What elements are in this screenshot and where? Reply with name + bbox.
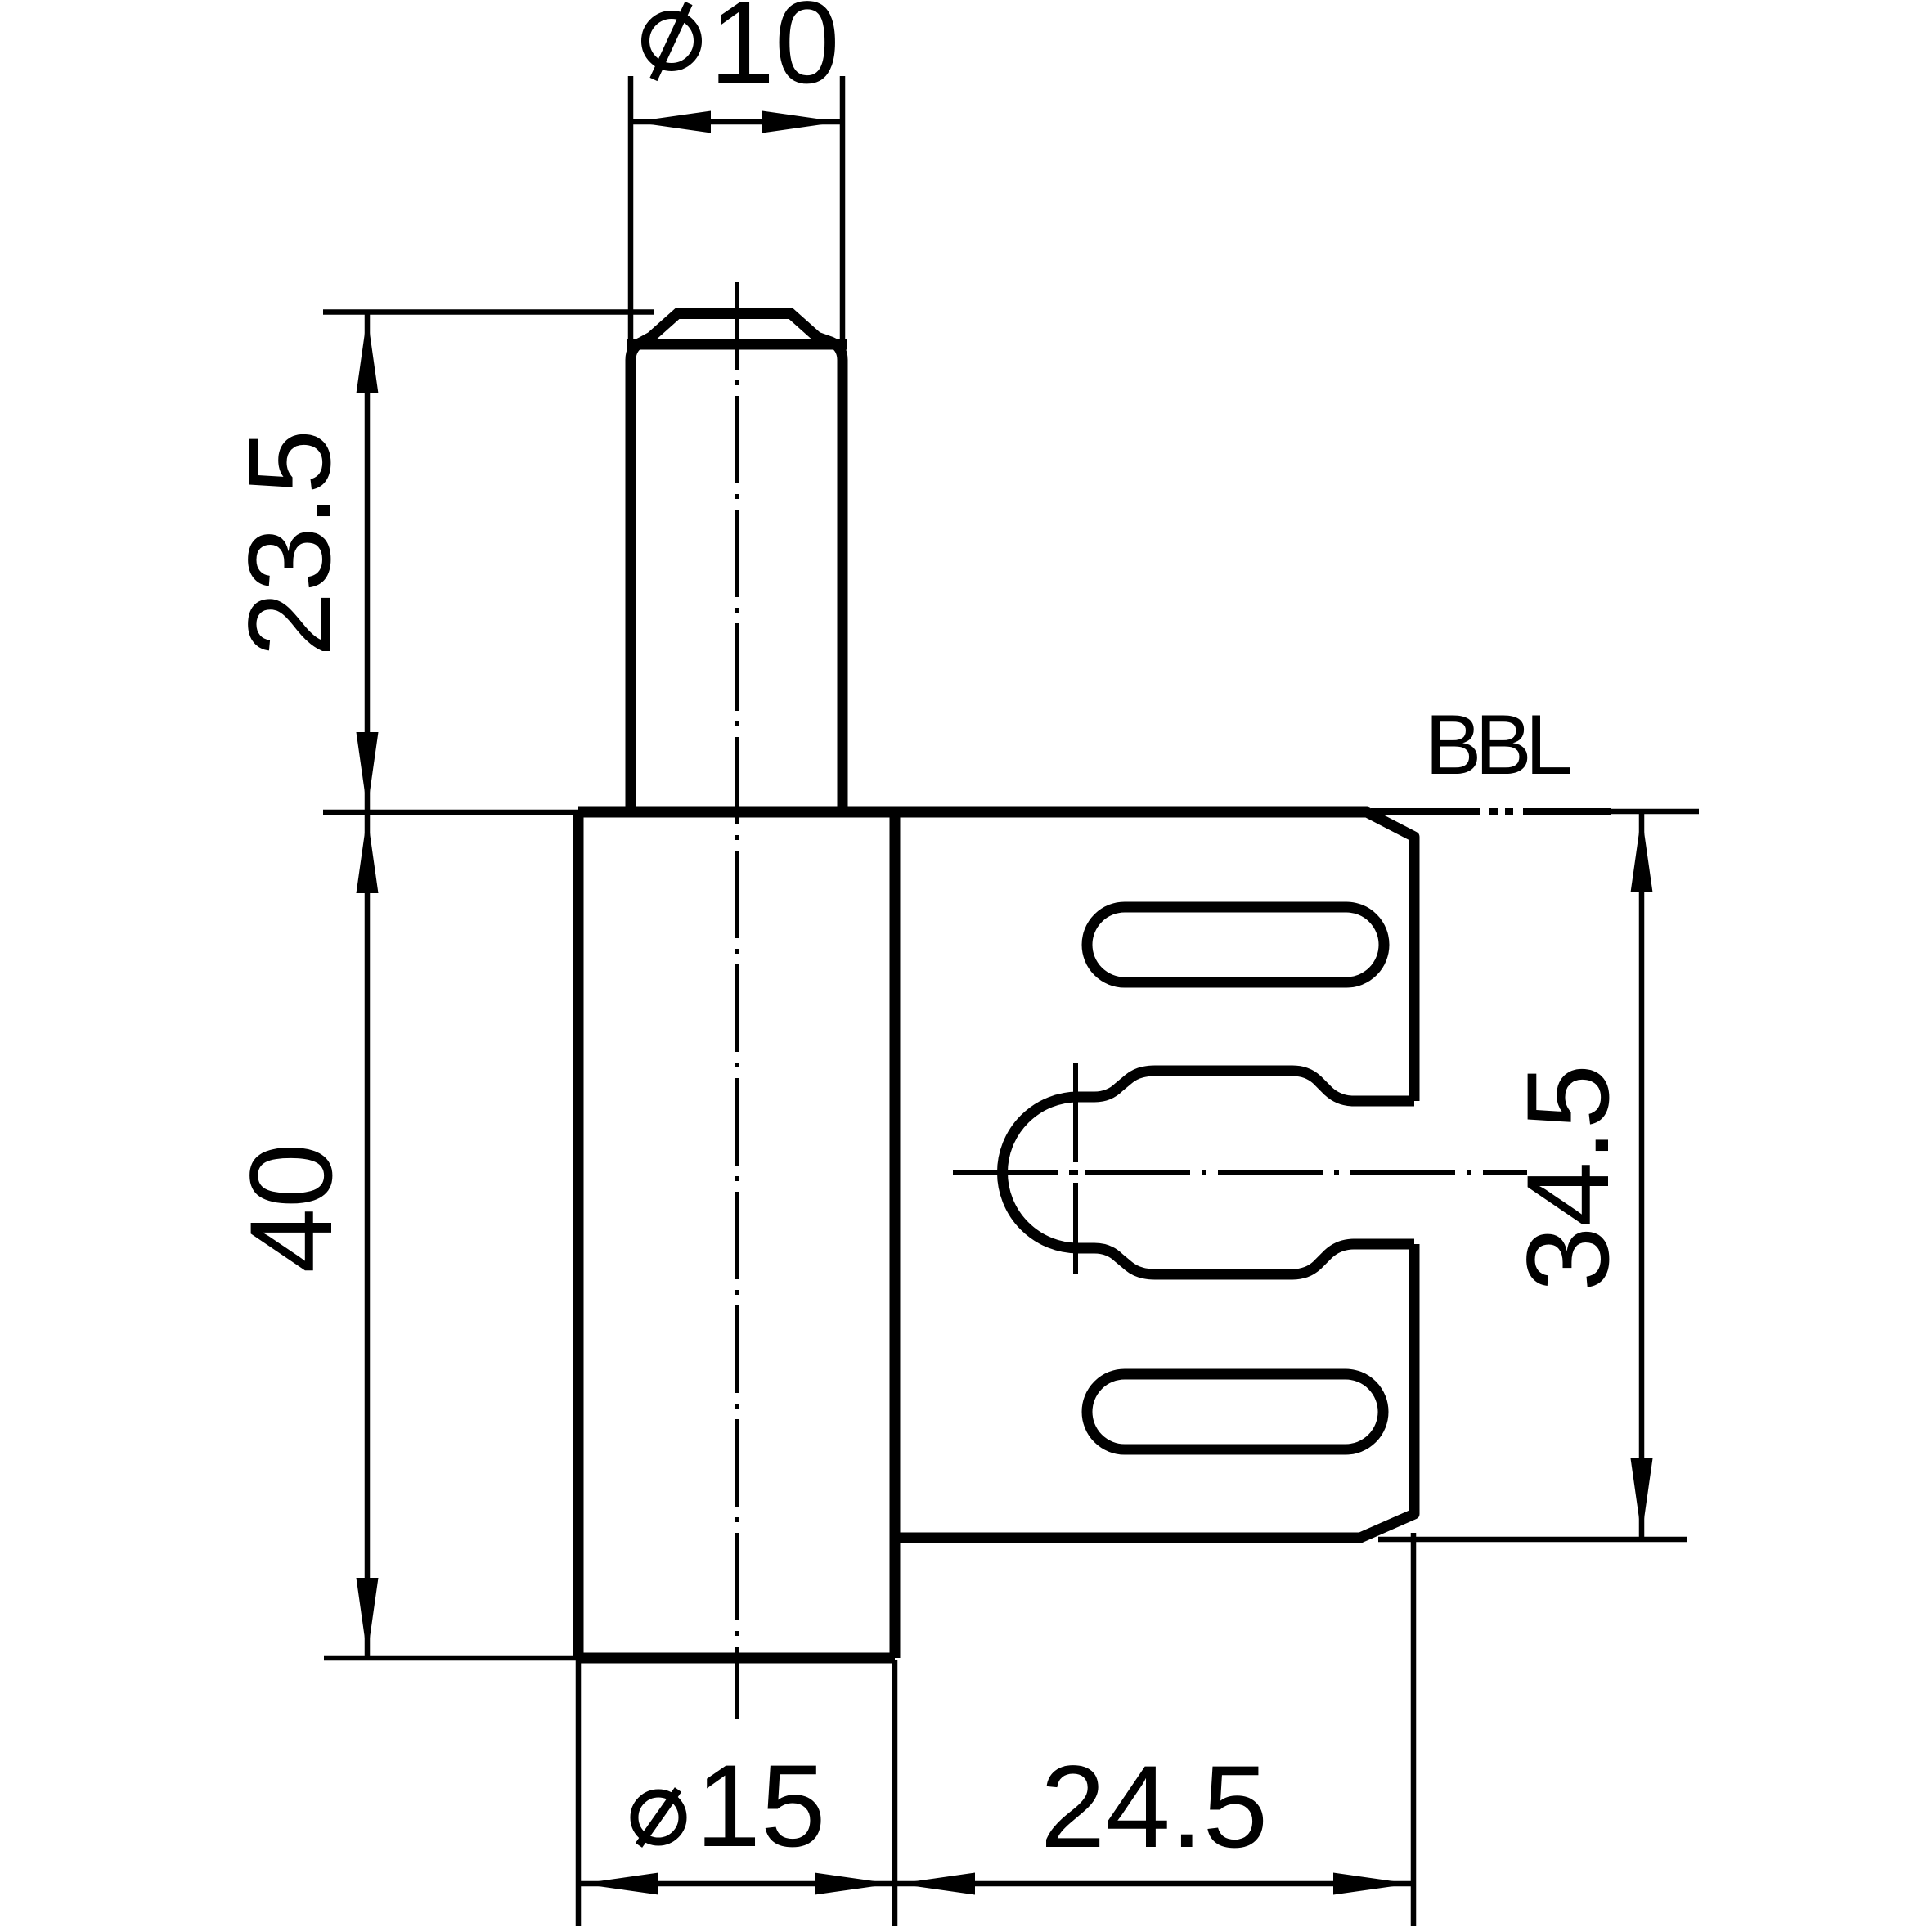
upper slot (1087, 907, 1384, 982)
extension line dia15/24.5 middle (892, 1660, 898, 1926)
cutout horizontal centerline (953, 1170, 1527, 1175)
arrow dia15 left (581, 1873, 658, 1895)
pin chamfer line (627, 339, 847, 350)
extension line dia15 left (576, 1660, 582, 1926)
svg-text:40: 40 (227, 1143, 357, 1273)
cylinder bottom edge (578, 1653, 895, 1664)
extension line dia10 right (840, 76, 846, 352)
svg-text:34.5: 34.5 (1503, 1064, 1633, 1292)
extension line 24.5 right (1411, 1533, 1417, 1926)
arrow 23.5 bottom (357, 732, 379, 810)
svg-text:15: 15 (695, 1741, 825, 1871)
arrow 34.5 top (1631, 815, 1653, 892)
cylinder left wall (573, 812, 584, 1658)
cylinder right wall / plate left edge (890, 812, 901, 1658)
extension line cylinder bottom left (324, 1656, 581, 1661)
central cutout outline (1003, 1071, 1415, 1274)
BBL chain line (1371, 808, 1611, 815)
dimension line 23.5/40 (365, 313, 371, 1658)
arrow dia10 right (762, 111, 840, 133)
svg-text:24.5: 24.5 (1040, 1742, 1268, 1872)
cutout vertical center mark (1073, 1063, 1078, 1274)
arrow 24.5 right (1333, 1873, 1411, 1895)
arrow 40 bottom (357, 1578, 379, 1656)
diameter symbol for 10 (645, 3, 698, 79)
arrow dia15 right (815, 1873, 892, 1895)
pin centerline (735, 282, 739, 1719)
lower slot (1087, 1374, 1383, 1449)
plate right edge lower, bottom chamfer, plate bottom edge (895, 1244, 1414, 1538)
arrow 34.5 bottom (1631, 1458, 1653, 1536)
dimension line dia10 (631, 119, 842, 125)
arrow 24.5 left (897, 1873, 975, 1895)
pin outline (631, 314, 842, 813)
extension line pin top left (323, 309, 654, 315)
arrow 23.5 top (357, 316, 379, 393)
extension line 34.5 bottom (1378, 1537, 1687, 1543)
extension line BBL left (323, 810, 581, 815)
extension line dia10 left (628, 76, 634, 352)
arrow dia10 left (633, 111, 711, 133)
body top edge, plate top chamfer, plate right edge upper (578, 812, 1414, 1101)
svg-text:10: 10 (709, 0, 839, 108)
svg-text:BBL: BBL (1425, 698, 1570, 793)
arrow 40 top (357, 815, 379, 893)
dimension line dia15 and 24.5 (578, 1881, 1413, 1887)
svg-text:23.5: 23.5 (225, 429, 355, 657)
dimension line 34.5 (1639, 812, 1645, 1539)
diameter symbol for 15 (635, 1790, 683, 1845)
